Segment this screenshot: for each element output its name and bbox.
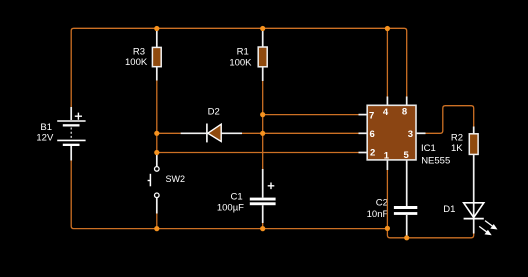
label IC1 <box>421 143 436 154</box>
wire: pin 3 to R2 <box>426 106 474 134</box>
svg-text:4: 4 <box>383 107 389 118</box>
svg-text:100µF: 100µF <box>217 202 244 213</box>
switch SW2 <box>148 167 160 198</box>
label C2 <box>376 197 388 208</box>
label C1 <box>231 191 243 202</box>
label 100uF <box>217 202 244 213</box>
node: pin 2 junction <box>154 150 159 155</box>
svg-text:R2: R2 <box>451 133 463 144</box>
label 100K (R3) <box>125 57 148 68</box>
wire: D2 left orange segment <box>157 132 181 134</box>
wire: ground step to lower rail and up to LED <box>387 228 473 238</box>
resistor R2 <box>469 134 478 155</box>
label 10nF <box>367 209 389 220</box>
wire: D2 right white lead <box>221 132 242 134</box>
pin 3 number <box>408 129 413 140</box>
LED D1 <box>464 203 498 236</box>
svg-text:8: 8 <box>402 106 407 117</box>
label D1 <box>443 204 455 215</box>
node: C1 ground junction <box>260 226 265 231</box>
wire: pin 6 white lead <box>359 132 368 134</box>
svg-text:100K: 100K <box>229 57 252 68</box>
label NE555 <box>421 156 450 167</box>
pin 2 number <box>370 148 375 159</box>
pin 4 number <box>383 107 389 118</box>
node: R1 top junction <box>260 26 265 31</box>
svg-text:6: 6 <box>369 129 374 140</box>
node: pin 6 junction <box>260 131 265 136</box>
wire: C2 bottom white lead <box>406 215 408 237</box>
wire: R2 top white lead <box>473 127 475 134</box>
wire: pin 5 to C2 white lead <box>406 160 408 206</box>
label SW2 <box>166 174 186 184</box>
wire: pin 3 white lead <box>416 132 426 134</box>
wire: C1 top white lead <box>262 169 264 198</box>
capacitor C2 <box>394 206 417 215</box>
svg-text:100K: 100K <box>125 57 148 68</box>
node: R3 top junction <box>154 26 159 31</box>
resistor R3 <box>152 47 161 66</box>
wire: R1 bottom white lead <box>262 67 264 81</box>
node: pin 1 ground junction <box>385 226 390 231</box>
wire: R3 top white lead <box>156 29 158 47</box>
wire: R3 bottom white lead <box>156 67 158 81</box>
label B1 <box>40 122 52 133</box>
pin 6 number <box>369 129 374 140</box>
node: C2 lower rail junction <box>404 235 409 240</box>
wire: node to SW2 top contact white lead <box>156 153 158 167</box>
svg-text:SW2: SW2 <box>166 174 186 184</box>
svg-text:1K: 1K <box>451 143 463 154</box>
wire: R1 top white lead <box>262 29 264 47</box>
wire: pin 4 drop from top rail <box>386 28 388 96</box>
wire: pin 2 wire from SW2 column <box>157 152 359 154</box>
wire: R1 to C1 orange segment <box>262 81 264 169</box>
svg-text:2: 2 <box>370 148 375 159</box>
resistor R1 <box>258 47 267 67</box>
wire: top rail from battery + to pin 8 corner <box>71 28 407 107</box>
wire: pin 8 white lead <box>406 97 408 106</box>
node: D2 left junction <box>154 131 159 136</box>
svg-text:NE555: NE555 <box>421 156 450 167</box>
wire: R2 bottom to LED white lead <box>473 154 475 233</box>
label 100K (R1) <box>229 57 252 68</box>
node: SW2 ground junction <box>154 226 159 231</box>
svg-text:D1: D1 <box>443 204 455 215</box>
svg-text:1: 1 <box>384 150 390 161</box>
wire: SW2 bottom white lead <box>156 198 158 214</box>
wire: pin 4 white lead <box>386 97 388 106</box>
wire: D2 left white lead <box>181 132 207 134</box>
wire: C1 to ground rail <box>262 223 264 229</box>
wire: pin 7 white lead <box>359 114 368 116</box>
label 1K <box>451 143 463 154</box>
pin 5 number <box>403 150 409 161</box>
svg-text:R1: R1 <box>237 47 249 58</box>
svg-text:12V: 12V <box>36 132 54 143</box>
wire: ground rail (left + bottom) <box>71 161 387 229</box>
label R1 <box>237 47 249 58</box>
svg-text:D2: D2 <box>208 106 220 117</box>
node: pin 7 junction <box>260 112 265 117</box>
label D2 <box>208 106 220 117</box>
svg-text:3: 3 <box>408 129 413 140</box>
svg-text:R3: R3 <box>133 47 145 58</box>
diode D2 <box>207 124 221 143</box>
pin 1 number <box>384 150 390 161</box>
battery B1 <box>57 107 85 161</box>
wire: R3 bottom to pin2 node <box>156 81 158 153</box>
op-amp U1: IC1 NE555 body <box>367 105 416 160</box>
wire: pin 1 to ground rail <box>386 170 388 229</box>
wire: pin 2 white lead <box>359 152 368 154</box>
pin 8 number <box>402 106 407 117</box>
wire: pin 1 white lead <box>386 160 388 170</box>
wire: C1 bottom white lead <box>262 205 264 223</box>
svg-text:10nF: 10nF <box>367 209 389 220</box>
svg-text:IC1: IC1 <box>421 143 436 154</box>
pin 7 number <box>369 111 374 122</box>
label 12V <box>36 132 54 143</box>
capacitor C1 <box>250 183 276 206</box>
svg-text:C2: C2 <box>376 197 388 208</box>
wire: pin 7 wire from R1 column <box>263 114 359 116</box>
svg-text:5: 5 <box>403 150 409 161</box>
label R2 <box>451 133 463 144</box>
wire: SW2 to ground rail <box>156 214 158 229</box>
svg-text:7: 7 <box>369 111 374 122</box>
node: pin 4 junction <box>385 26 390 31</box>
wire: D2 to pin 6 <box>242 132 359 134</box>
label R3 <box>133 47 145 58</box>
svg-text:C1: C1 <box>231 191 243 202</box>
